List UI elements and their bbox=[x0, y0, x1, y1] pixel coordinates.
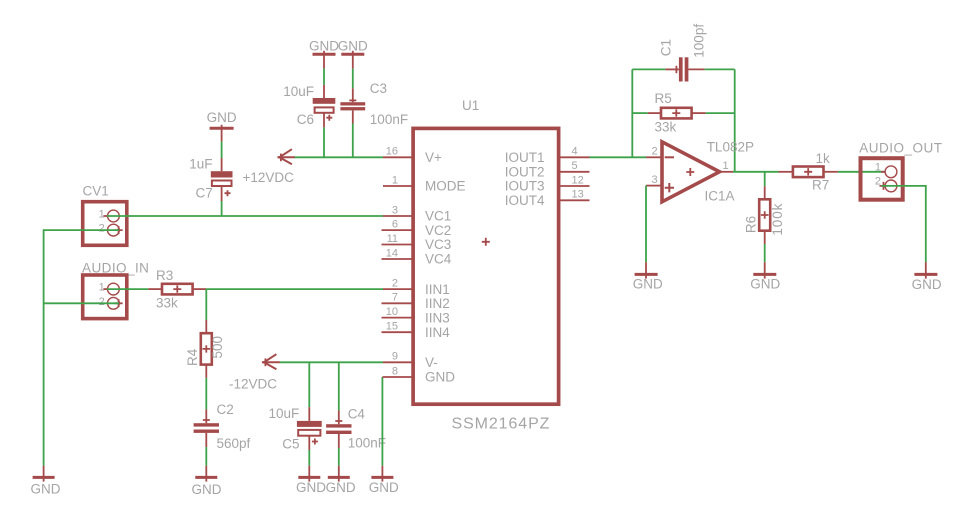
U1 pin 14 VC4 bbox=[382, 247, 452, 266]
wire C5 to gnd bbox=[308, 450, 310, 466]
svg-text:IIN4: IIN4 bbox=[425, 325, 450, 340]
svg-text:GND: GND bbox=[326, 480, 356, 495]
svg-text:12: 12 bbox=[572, 174, 584, 186]
ground GND below R6 bbox=[750, 262, 780, 291]
svg-text:GND: GND bbox=[192, 482, 222, 497]
svg-text:GND: GND bbox=[425, 370, 455, 385]
svg-text:33k: 33k bbox=[156, 296, 178, 311]
svg-text:IIN1: IIN1 bbox=[425, 282, 450, 297]
svg-text:GND: GND bbox=[309, 38, 339, 53]
svg-text:C4: C4 bbox=[348, 407, 366, 422]
wire R7 to AUDIO_OUT pin1 bbox=[838, 171, 885, 173]
capacitor C2 560pf bbox=[194, 402, 251, 451]
svg-text:GND: GND bbox=[338, 38, 368, 53]
svg-text:100nF: 100nF bbox=[348, 436, 386, 451]
wire U1 pin8 to gnd bbox=[381, 377, 383, 466]
svg-text:4: 4 bbox=[572, 146, 578, 158]
ground GND bottom-left bbox=[31, 466, 61, 497]
U1 pin 4 IOUT1 bbox=[505, 146, 590, 165]
wire R5 row left bbox=[632, 112, 648, 114]
wire GND to C7 bbox=[221, 142, 223, 158]
resistor R7 1k bbox=[779, 151, 838, 192]
U1 pin 8 GND bbox=[382, 365, 455, 384]
svg-text:3: 3 bbox=[652, 174, 658, 186]
wire op-amp output to R7 bbox=[733, 171, 779, 173]
svg-text:-12VDC: -12VDC bbox=[229, 377, 277, 392]
connector AUDIO_IN bbox=[82, 260, 149, 318]
svg-text:+12VDC: +12VDC bbox=[243, 170, 295, 185]
capacitor C4 100nF bbox=[326, 407, 386, 451]
wire C6 drop to +12V rail bbox=[323, 127, 325, 157]
wire C5 drop from -12V rail bbox=[308, 362, 310, 407]
svg-text:11: 11 bbox=[387, 233, 398, 245]
svg-text:100nF: 100nF bbox=[370, 112, 408, 127]
svg-text:100k: 100k bbox=[770, 203, 785, 236]
svg-text:IC1A: IC1A bbox=[705, 189, 735, 204]
svg-text:3: 3 bbox=[392, 204, 398, 216]
svg-text:C1: C1 bbox=[659, 39, 674, 56]
svg-text:R4: R4 bbox=[185, 348, 200, 366]
svg-text:SSM2164PZ: SSM2164PZ bbox=[452, 415, 551, 432]
supply symbol +12VDC bbox=[243, 149, 295, 185]
svg-text:R5: R5 bbox=[655, 91, 672, 106]
connector AUDIO_OUT bbox=[859, 140, 942, 199]
svg-text:CV1: CV1 bbox=[83, 184, 109, 199]
svg-text:GND: GND bbox=[369, 480, 399, 495]
wire net +12VDC rail to pin16 bbox=[295, 156, 384, 158]
svg-text:GND: GND bbox=[207, 110, 237, 125]
svg-text:IOUT4: IOUT4 bbox=[505, 193, 545, 208]
wire C4 drop from -12V rail bbox=[338, 362, 340, 410]
ground GND below op-amp bbox=[633, 262, 663, 291]
svg-text:R7: R7 bbox=[812, 177, 829, 192]
resistor R3 33k bbox=[148, 268, 206, 311]
svg-text:560pf: 560pf bbox=[217, 436, 251, 451]
svg-text:IOUT1: IOUT1 bbox=[505, 150, 545, 165]
svg-text:100pf: 100pf bbox=[692, 24, 707, 58]
svg-text:IIN2: IIN2 bbox=[425, 296, 450, 311]
svg-text:V+: V+ bbox=[425, 150, 442, 165]
wire R3 to U1 IIN1 bbox=[206, 288, 383, 290]
svg-text:R6: R6 bbox=[744, 216, 759, 233]
svg-text:2: 2 bbox=[99, 296, 105, 308]
svg-text:2: 2 bbox=[392, 277, 398, 289]
svg-text:16: 16 bbox=[386, 146, 398, 158]
svg-text:MODE: MODE bbox=[425, 179, 466, 194]
svg-text:C2: C2 bbox=[217, 402, 234, 417]
svg-text:15: 15 bbox=[386, 321, 398, 333]
U1 pin 11 VC3 bbox=[382, 233, 452, 252]
wire AUDIO_IN pin2 to gnd rail bbox=[44, 302, 119, 304]
svg-text:IOUT2: IOUT2 bbox=[505, 165, 545, 180]
svg-text:TL082P: TL082P bbox=[707, 140, 754, 155]
svg-text:AUDIO_IN: AUDIO_IN bbox=[82, 260, 149, 275]
U1 pin 1 MODE bbox=[383, 174, 466, 193]
svg-text:1: 1 bbox=[875, 161, 881, 173]
wire op-amp pin3 to gnd bbox=[645, 186, 647, 263]
U1 pin 16 V+ bbox=[383, 146, 442, 165]
wire IOUT1 to op-amp pin2 bbox=[590, 156, 647, 158]
U1 pin 9 V- bbox=[383, 351, 438, 370]
svg-text:VC1: VC1 bbox=[425, 209, 451, 224]
U1 pin 6 VC2 bbox=[382, 218, 452, 237]
svg-text:8: 8 bbox=[392, 365, 398, 377]
U1 pin 12 IOUT3 bbox=[505, 174, 590, 193]
U1 pin 13 IOUT4 bbox=[505, 189, 590, 208]
wire junction R3 down to R4 bbox=[205, 289, 207, 320]
svg-text:10uF: 10uF bbox=[283, 84, 314, 99]
IC U1 SSM2164PZ body bbox=[413, 98, 558, 432]
svg-text:VC3: VC3 bbox=[425, 237, 451, 252]
supply symbol -12VDC bbox=[229, 354, 280, 391]
wire C7 to VC1 net bbox=[221, 201, 223, 216]
U1 pin 2 IIN1 bbox=[383, 277, 450, 296]
svg-text:GND: GND bbox=[633, 277, 663, 292]
svg-text:14: 14 bbox=[386, 247, 398, 259]
ground GND below U1 pin8 bbox=[369, 466, 399, 496]
svg-text:VC2: VC2 bbox=[425, 223, 451, 238]
U1 pin 3 VC1 bbox=[383, 204, 451, 223]
wire net -12VDC rail to pin9 bbox=[280, 361, 383, 363]
wire C2 to gnd bbox=[205, 447, 207, 466]
wire C3 drop to +12V rail bbox=[352, 124, 354, 158]
svg-text:5: 5 bbox=[572, 160, 578, 172]
wire feedback top to C1 bbox=[632, 68, 665, 70]
wire GND to C6 bbox=[323, 69, 325, 85]
U1 pin 15 IIN4 bbox=[382, 321, 451, 340]
ground GND below C5 bbox=[296, 466, 326, 495]
svg-text:GND: GND bbox=[912, 277, 942, 292]
svg-text:7: 7 bbox=[392, 292, 398, 304]
svg-text:1: 1 bbox=[99, 209, 105, 221]
svg-text:1: 1 bbox=[99, 282, 105, 294]
ground GND below C2 bbox=[192, 466, 222, 497]
capacitor C7 1uF bbox=[189, 156, 232, 201]
svg-text:2: 2 bbox=[652, 146, 658, 158]
wire AUDIO_IN pin1 to R3 bbox=[107, 288, 148, 290]
svg-text:U1: U1 bbox=[462, 98, 479, 113]
svg-text:6: 6 bbox=[392, 218, 398, 230]
svg-text:V-: V- bbox=[425, 355, 438, 370]
connector CV1 bbox=[83, 184, 127, 246]
wire AUDIO_OUT pin2 to gnd bbox=[881, 186, 926, 262]
svg-text:1: 1 bbox=[392, 174, 398, 186]
svg-text:33k: 33k bbox=[655, 120, 677, 135]
wire feedback left rail bbox=[631, 69, 633, 157]
capacitor C1 100pf bbox=[659, 24, 707, 82]
svg-text:10: 10 bbox=[386, 306, 398, 318]
ground GND below C4 bbox=[326, 466, 356, 495]
svg-text:500: 500 bbox=[210, 336, 225, 359]
svg-text:GND: GND bbox=[296, 480, 326, 495]
svg-text:C3: C3 bbox=[370, 81, 387, 96]
wire GND to C3 bbox=[352, 69, 354, 89]
capacitor C3 100nF bbox=[340, 81, 408, 127]
svg-text:C5: C5 bbox=[282, 436, 299, 451]
wire CV1 pin1 to U1 VC1 bbox=[107, 215, 383, 217]
svg-text:13: 13 bbox=[572, 189, 584, 201]
svg-text:C6: C6 bbox=[297, 112, 314, 127]
ground GND above C6 bbox=[309, 38, 339, 68]
op-amp IC1A TL082P bbox=[646, 140, 754, 204]
svg-text:10uF: 10uF bbox=[269, 406, 300, 421]
svg-text:GND: GND bbox=[31, 481, 61, 496]
wire junction output to R6 bbox=[764, 172, 766, 187]
svg-text:IOUT3: IOUT3 bbox=[505, 179, 545, 194]
svg-text:9: 9 bbox=[392, 351, 398, 363]
svg-text:GND: GND bbox=[750, 277, 780, 292]
ground GND below AUDIO_OUT bbox=[912, 262, 942, 292]
svg-text:VC4: VC4 bbox=[425, 252, 452, 267]
wire feedback right rail bbox=[734, 69, 736, 171]
resistor R5 33k bbox=[648, 91, 706, 135]
svg-text:C7: C7 bbox=[196, 185, 213, 200]
wire C4 to gnd bbox=[338, 448, 340, 466]
wire C1 to right rail bbox=[705, 68, 735, 70]
resistor R4 500 bbox=[185, 320, 225, 378]
capacitor C6 10uF bbox=[283, 84, 335, 127]
wire CV1 pin2 to gnd rail bbox=[44, 230, 119, 466]
resistor R6 100k bbox=[744, 186, 786, 244]
svg-text:1k: 1k bbox=[816, 151, 831, 166]
svg-text:1: 1 bbox=[723, 160, 729, 172]
wire R4 to C2 bbox=[205, 378, 207, 410]
ground GND above C3 bbox=[338, 38, 368, 68]
U1 pin 10 IIN3 bbox=[382, 306, 450, 325]
capacitor C5 10uF bbox=[269, 406, 322, 451]
wire R5 row right bbox=[706, 112, 735, 114]
ground GND above C7 bbox=[207, 110, 237, 141]
U1 pin 5 IOUT2 bbox=[505, 160, 590, 179]
svg-text:R3: R3 bbox=[156, 268, 173, 283]
svg-text:AUDIO_OUT: AUDIO_OUT bbox=[859, 140, 942, 155]
wire R6 to gnd bbox=[764, 244, 766, 262]
svg-text:2: 2 bbox=[99, 223, 105, 235]
svg-text:1uF: 1uF bbox=[189, 156, 212, 171]
U1 pin 7 IIN2 bbox=[382, 292, 450, 311]
svg-text:IIN3: IIN3 bbox=[425, 310, 450, 325]
